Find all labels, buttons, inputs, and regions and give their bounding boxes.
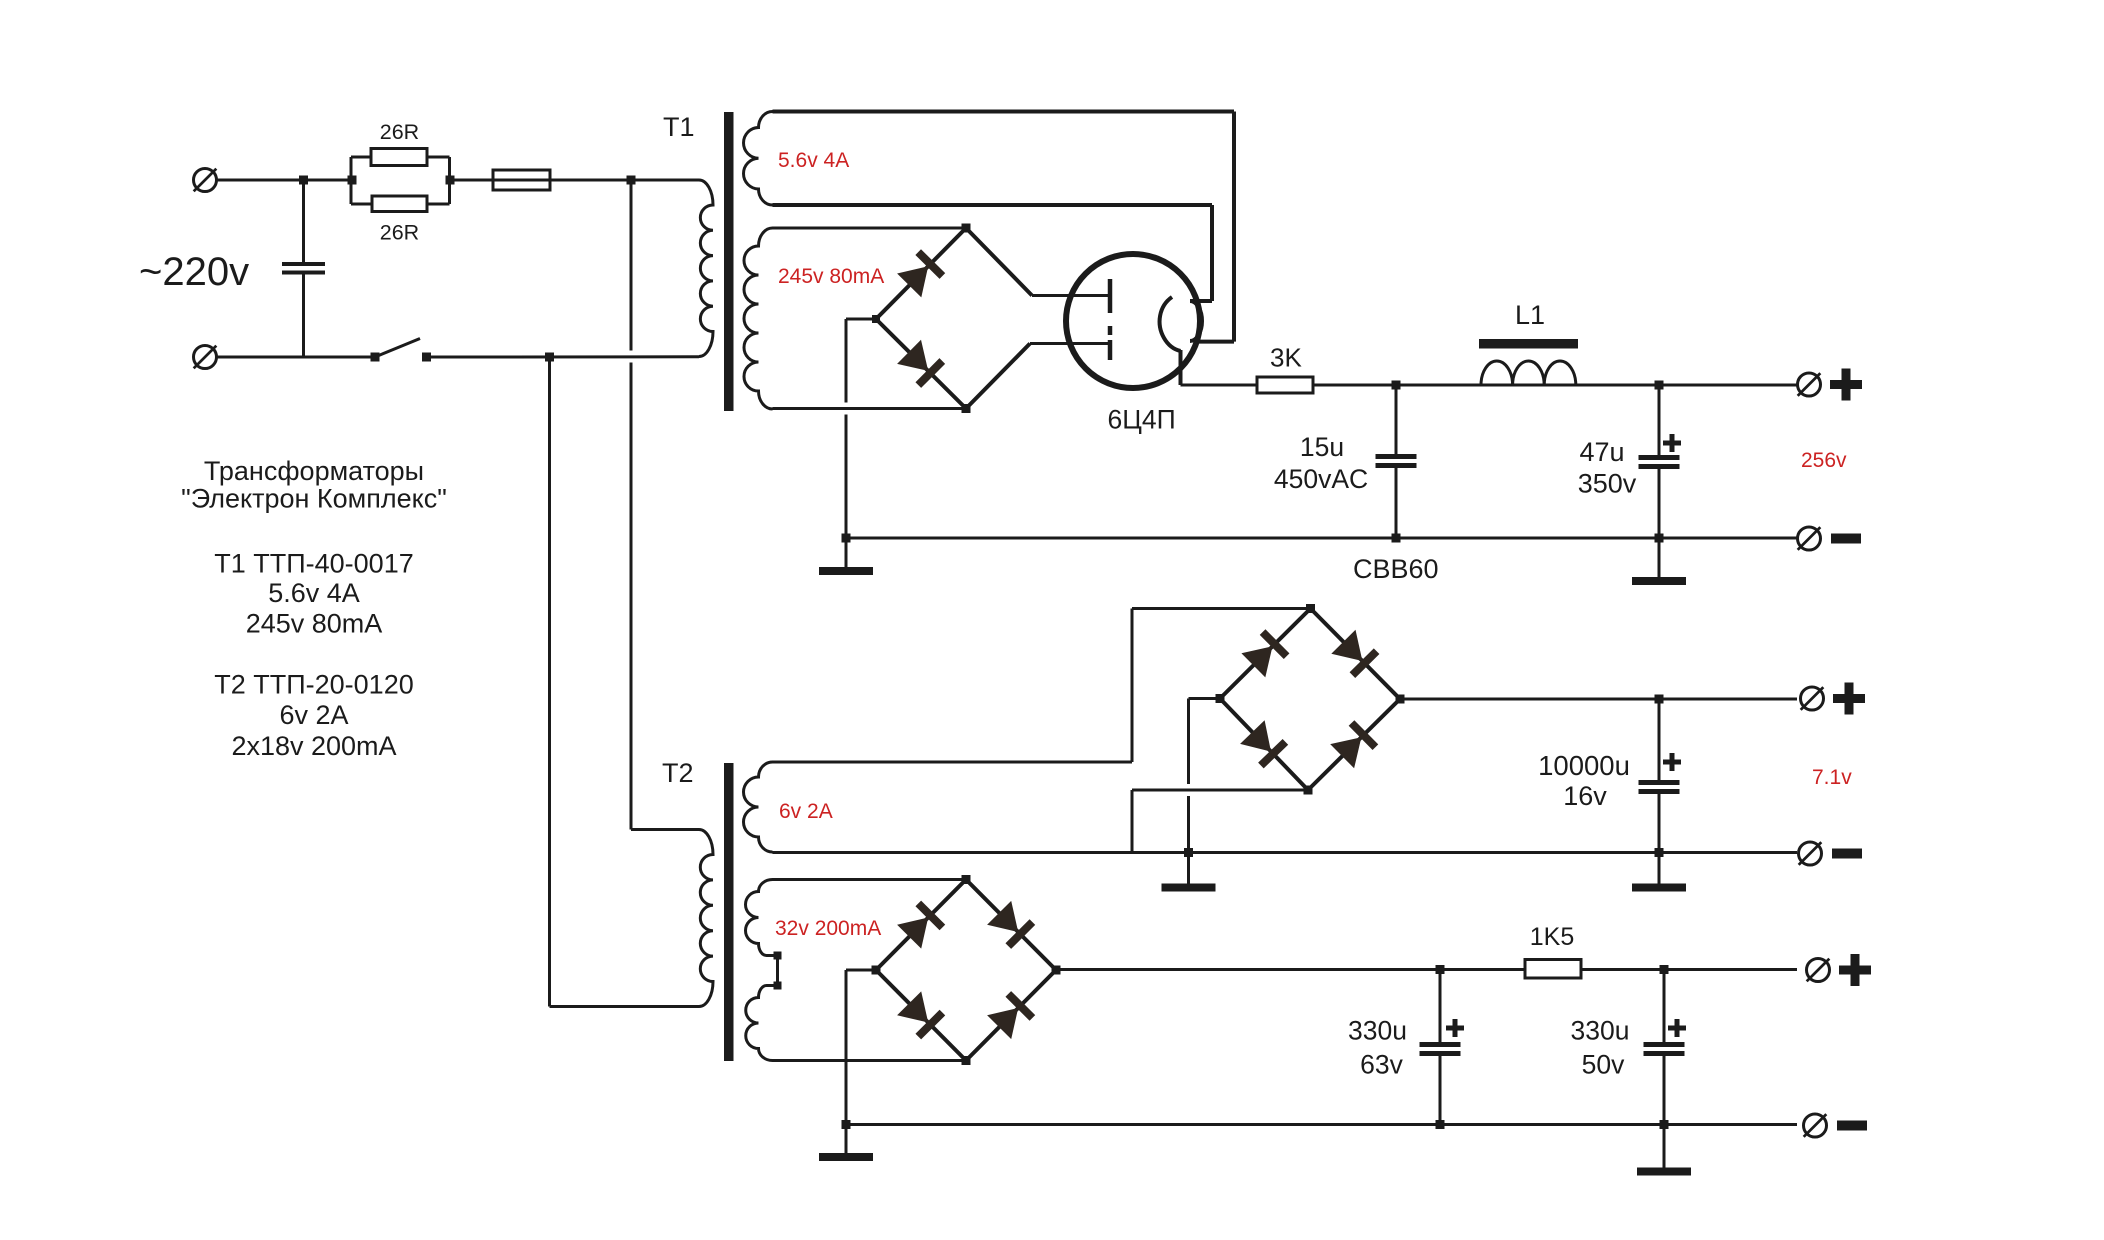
svg-text:6v 2A: 6v 2A bbox=[779, 800, 833, 823]
svg-text:6v 2A: 6v 2A bbox=[279, 700, 348, 730]
svg-text:245v 80mA: 245v 80mA bbox=[246, 609, 383, 639]
svg-text:330u: 330u bbox=[1348, 1016, 1407, 1046]
svg-text:26R: 26R bbox=[380, 221, 419, 245]
svg-text:16v: 16v bbox=[1563, 781, 1607, 811]
svg-text:350v: 350v bbox=[1578, 469, 1637, 499]
svg-text:330u: 330u bbox=[1571, 1016, 1630, 1046]
svg-text:3K: 3K bbox=[1270, 343, 1302, 373]
svg-text:245v 80mA: 245v 80mA bbox=[778, 265, 884, 288]
svg-text:32v 200mA: 32v 200mA bbox=[775, 917, 881, 940]
svg-text:256v: 256v bbox=[1801, 449, 1847, 472]
svg-text:L1: L1 bbox=[1515, 300, 1545, 330]
svg-text:450vAC: 450vAC bbox=[1274, 464, 1368, 494]
svg-text:2x18v 200mA: 2x18v 200mA bbox=[231, 731, 396, 761]
svg-text:47u: 47u bbox=[1579, 437, 1624, 467]
svg-text:T1: T1 bbox=[663, 112, 695, 142]
svg-text:6Ц4П: 6Ц4П bbox=[1108, 405, 1176, 435]
svg-text:"Электрон Комплекс": "Электрон Комплекс" bbox=[181, 484, 447, 514]
svg-text:~220v: ~220v bbox=[139, 250, 249, 294]
svg-text:63v: 63v bbox=[1360, 1050, 1403, 1080]
svg-text:50v: 50v bbox=[1582, 1050, 1625, 1080]
svg-text:10000u: 10000u bbox=[1538, 750, 1630, 781]
svg-text:26R: 26R bbox=[380, 120, 419, 144]
svg-text:T2: T2 bbox=[662, 758, 694, 788]
svg-text:5.6v 4A: 5.6v 4A bbox=[778, 149, 849, 172]
svg-text:Т2 ТТП-20-0120: Т2 ТТП-20-0120 bbox=[214, 670, 413, 700]
svg-text:Трансформаторы: Трансформаторы bbox=[204, 456, 424, 486]
svg-text:5.6v 4A: 5.6v 4A bbox=[268, 578, 360, 608]
svg-text:7.1v: 7.1v bbox=[1812, 766, 1852, 789]
svg-text:Т1 ТТП-40-0017: Т1 ТТП-40-0017 bbox=[214, 549, 413, 579]
svg-text:1K5: 1K5 bbox=[1530, 923, 1574, 951]
svg-text:CBB60: CBB60 bbox=[1353, 554, 1439, 584]
svg-text:15u: 15u bbox=[1300, 432, 1344, 462]
